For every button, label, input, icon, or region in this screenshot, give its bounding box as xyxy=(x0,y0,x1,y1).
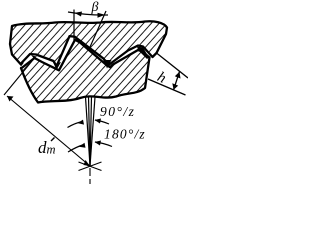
svg-text:β: β xyxy=(91,0,99,15)
svg-text:90°/z: 90°/z xyxy=(100,104,135,119)
svg-text:180°/z: 180°/z xyxy=(104,127,146,142)
svg-text:h: h xyxy=(155,69,169,87)
svg-text:dm: dm xyxy=(38,138,56,157)
